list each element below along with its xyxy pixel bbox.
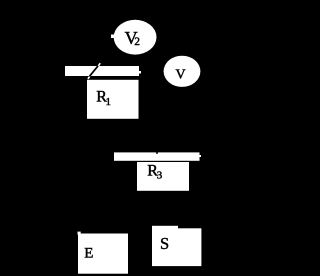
- svg-text:V: V: [176, 68, 186, 83]
- wire bar above R3: [114, 152, 201, 160]
- svg-text:2: 2: [134, 36, 140, 48]
- rheostat (slashed bar): [65, 63, 141, 79]
- voltmeter V: [164, 56, 201, 87]
- svg-text:S: S: [160, 234, 169, 253]
- switch S: [152, 226, 201, 266]
- svg-text:1: 1: [106, 96, 112, 108]
- voltmeter V2: [111, 20, 157, 55]
- resistor R1: [87, 80, 139, 119]
- svg-text:3: 3: [157, 170, 163, 182]
- svg-text:E: E: [84, 246, 93, 262]
- battery E: [78, 232, 129, 274]
- resistor R3: [137, 162, 189, 191]
